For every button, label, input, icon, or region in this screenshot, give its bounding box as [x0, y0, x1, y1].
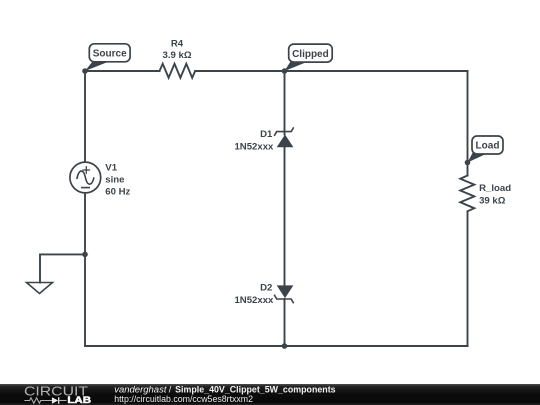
node Load junction dot: [465, 160, 471, 166]
wire middle: node Clipped down to D1: [284, 71, 286, 135]
flag Load: [468, 136, 504, 163]
label V1 value: [105, 162, 130, 197]
wire left: node Source down to V1: [84, 71, 86, 162]
svg-text:Simple_40V_Clippet_5W_componen: Simple_40V_Clippet_5W_components: [175, 384, 336, 394]
flag Clipped: [285, 44, 333, 71]
svg-text:3.9 kΩ: 3.9 kΩ: [162, 50, 191, 61]
node Source junction dot: [82, 68, 88, 74]
node Clipped junction dot: [282, 68, 288, 74]
svg-text:V1: V1: [105, 162, 117, 173]
flag Source: [85, 44, 130, 71]
wire right: R_load down to bottom-right corner: [467, 211, 469, 346]
svg-text:Clipped: Clipped: [292, 49, 329, 60]
resistor R_load: [460, 176, 474, 212]
ground: [27, 283, 53, 294]
footer title text: [114, 384, 335, 404]
voltage source V1: [70, 162, 101, 193]
label D2 value: [234, 283, 274, 306]
svg-text:D1: D1: [260, 129, 273, 140]
zener diode D2: [275, 285, 294, 302]
footer bar: [0, 384, 540, 405]
wire middle: D1 to D2: [284, 147, 286, 285]
svg-text:D2: D2: [260, 283, 272, 294]
svg-text:http://circuitlab.com/ccw5es8r: http://circuitlab.com/ccw5es8rtxxm2: [114, 394, 253, 404]
wire right: top-right corner down to node Load: [467, 71, 469, 176]
svg-text:60 Hz: 60 Hz: [105, 186, 130, 197]
wire middle: D2 down to bottom junction: [284, 299, 286, 346]
wire top: R4 to node Clipped: [195, 70, 284, 72]
logo CircuitLab: [24, 384, 92, 405]
zener diode D1: [275, 128, 294, 147]
wire bottom: [85, 345, 468, 347]
wire top: node Source to R4: [85, 70, 160, 72]
label R_load value: [479, 183, 511, 207]
svg-text:39 kΩ: 39 kΩ: [479, 196, 506, 207]
bottom junction dot: [282, 343, 288, 349]
svg-text:LAB: LAB: [67, 395, 91, 405]
resistor R4: [160, 64, 196, 78]
svg-text:1N52xxx: 1N52xxx: [234, 295, 274, 306]
wire left: V1 down to bottom-left corner: [84, 193, 86, 346]
svg-text:Load: Load: [476, 141, 500, 152]
svg-text:Source: Source: [93, 49, 127, 60]
wire top: node Clipped to top-right corner: [285, 70, 468, 72]
svg-text:R_load: R_load: [479, 183, 511, 194]
svg-text:R4: R4: [171, 39, 184, 50]
label D1 value: [234, 129, 274, 153]
ground junction dot: [82, 252, 88, 258]
label R4 value: [162, 39, 191, 62]
svg-text:sine: sine: [105, 174, 124, 185]
wire ground stub: [40, 254, 85, 282]
svg-text:1N52xxx: 1N52xxx: [234, 142, 274, 153]
